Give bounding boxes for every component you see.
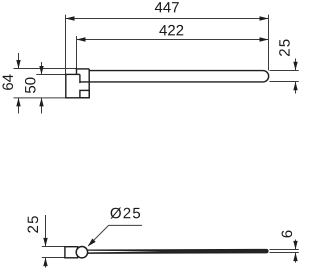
extension line block bottom (25)	[42, 257, 65, 259]
wall flange outline (top view)	[65, 69, 269, 99]
extension line block top (25)	[42, 246, 65, 248]
pivot circle (front view)	[76, 247, 87, 258]
extension line bar bottom right (6)	[270, 252, 299, 254]
bar profile with rounded tip (front view)	[87, 249, 268, 253]
dimension line 25 upper segment (front view)	[45, 215, 47, 247]
wall block (front view)	[65, 247, 78, 258]
leader line for diameter label	[88, 225, 142, 245]
dimension text 6 (rotated)	[282, 230, 293, 237]
bar highlight core (front view)	[88, 251, 162, 253]
extension line bar top right (25)	[270, 70, 299, 72]
holder right edge	[88, 69, 90, 98]
arrowhead 50 top (points down)	[39, 66, 43, 75]
arrowhead 25 top front view (points down)	[43, 238, 47, 247]
arrowhead 50 bottom (points up)	[39, 98, 43, 107]
leader arrowhead	[88, 239, 96, 247]
bar rounded end cap (top view)	[263, 71, 269, 82]
arrowhead 64 bottom (points up)	[16, 98, 20, 107]
arrowhead 6 top (points down)	[293, 241, 297, 250]
arrowhead 447 left	[66, 16, 75, 20]
extension line holder left (422)	[76, 36, 78, 69]
extension line bar top right (6)	[270, 249, 299, 251]
dimension line 50 upper segment	[41, 62, 43, 75]
dimension line 25 lower segment	[295, 82, 297, 94]
extension line top of holder (64)	[14, 68, 77, 70]
holder left edge	[76, 69, 78, 75]
extension line bottom of flange (64/50)	[14, 97, 66, 99]
dimension text 25 front view (rotated)	[28, 216, 39, 233]
dimension line 25 upper segment	[295, 59, 297, 71]
dimension text 447	[155, 2, 179, 12]
bar bottom edge (top view)	[80, 81, 263, 83]
dimension line 50 lower segment	[41, 98, 43, 114]
dimension text 25 right (rotated)	[279, 39, 290, 56]
dimension line 64 lower segment	[18, 98, 20, 114]
arrowhead 422 left	[77, 37, 86, 41]
arrowhead 6 bottom (points up)	[293, 253, 297, 262]
arrowhead 64 top (points down)	[16, 60, 20, 69]
arrowhead 25 bottom front view (points up)	[43, 258, 47, 267]
holder top edge	[76, 68, 89, 70]
extension line bar bottom right (25)	[270, 81, 299, 83]
dimension text 64 (rotated)	[2, 74, 13, 89]
bar (front view)	[87, 249, 268, 253]
extension line top of flange (50)	[36, 74, 65, 76]
arrowhead 422 right	[260, 37, 269, 41]
latch square	[80, 90, 89, 97]
bracket bottom edge	[65, 97, 89, 99]
bar top edge (top view)	[89, 70, 263, 72]
dimension line 422	[77, 39, 269, 41]
extension line bar tip right	[268, 15, 270, 71]
dimension line 6 lower segment	[295, 253, 297, 263]
arrowhead 25 top (points down)	[293, 62, 297, 71]
flange left edge	[65, 74, 67, 99]
dimension text 422	[159, 25, 183, 35]
diameter label Ø25	[110, 207, 140, 218]
arrowhead 25 bottom (points up)	[293, 82, 297, 91]
flange right step edge	[79, 74, 81, 83]
dimension text 50 (rotated)	[25, 78, 36, 94]
dimension line 6 upper segment	[295, 240, 297, 250]
dimension line 447	[66, 18, 269, 20]
extension line left wall face (447)	[65, 15, 67, 75]
arrowhead 447 right	[260, 16, 269, 20]
dimension line 64 upper segment	[18, 53, 20, 69]
dimension line 25 lower segment (front view)	[45, 258, 47, 268]
flange top edge	[66, 73, 80, 75]
